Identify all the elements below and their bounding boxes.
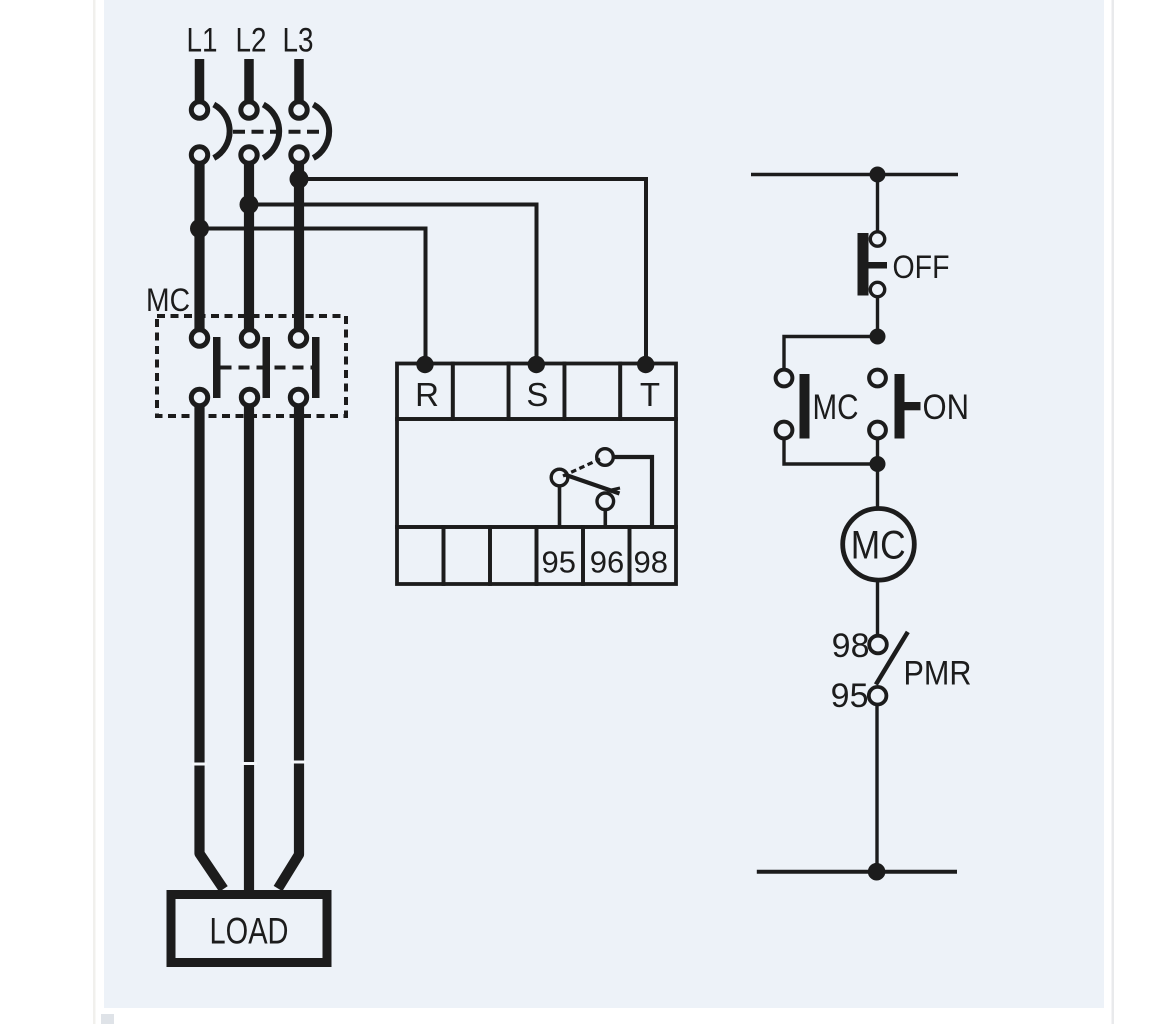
contactor mechanical link (dashed) xyxy=(221,366,313,370)
svg-text:LOAD: LOAD xyxy=(210,911,289,952)
PMR contact terminal 95 xyxy=(869,687,887,705)
contactor MC pole 2 xyxy=(241,330,270,406)
wire 95 to bottom rail xyxy=(875,705,878,872)
wire L1 supply stub xyxy=(195,59,205,102)
wire OFF to parallel junction xyxy=(876,298,879,337)
svg-text:98: 98 xyxy=(832,627,870,665)
wire to MC aux branch top xyxy=(784,337,878,371)
svg-text:R: R xyxy=(415,376,439,413)
overload relay bottom terminal row xyxy=(397,527,676,584)
relay contact NC 96 wire xyxy=(603,510,607,527)
PMR contact terminal 98 xyxy=(869,636,887,654)
terminal S node xyxy=(528,356,545,373)
wire junction to coil xyxy=(876,464,879,508)
load box xyxy=(171,895,327,963)
svg-text:MC: MC xyxy=(813,388,859,427)
wire L3 tap to terminal T xyxy=(299,179,646,362)
node bottom rail junction xyxy=(868,863,886,881)
auxiliary contact MC (NO) xyxy=(776,370,810,439)
breaker mechanical link (dashed) xyxy=(233,130,321,134)
node parallel top junction xyxy=(870,329,886,345)
wire L2 supply stub xyxy=(244,59,254,102)
svg-text:S: S xyxy=(526,376,548,413)
svg-text:T: T xyxy=(640,376,660,413)
svg-text:L3: L3 xyxy=(283,22,314,60)
wire ON to bottom junction xyxy=(876,439,879,464)
node L3 tap xyxy=(290,170,309,189)
relay changeover contact xyxy=(551,449,620,510)
wire contactor pole3 to load xyxy=(278,405,306,889)
pushbutton OFF (NC) xyxy=(858,232,888,297)
circuit breaker pole 3 xyxy=(291,102,329,163)
wire L1 breaker to contactor xyxy=(194,160,204,332)
wire L3 supply stub xyxy=(294,59,304,102)
wire L3 breaker to contactor xyxy=(294,160,304,332)
control bottom rail xyxy=(757,870,957,874)
coil MC xyxy=(843,509,915,581)
contactor MC pole 1 xyxy=(191,330,220,406)
svg-text:MC: MC xyxy=(851,524,906,568)
node L2 tap xyxy=(240,195,259,214)
svg-text:95: 95 xyxy=(542,545,576,580)
node top rail junction xyxy=(870,167,886,183)
wire MC aux branch bottom xyxy=(784,439,878,464)
control top rail xyxy=(751,173,958,177)
pushbutton ON (NO) xyxy=(869,370,920,439)
node L1 tap xyxy=(190,219,209,238)
svg-text:L2: L2 xyxy=(236,22,267,60)
wire rail to OFF button xyxy=(876,175,879,233)
relay contact NO 98 wire xyxy=(613,457,652,526)
circuit breaker pole 1 xyxy=(191,102,229,163)
terminal T node xyxy=(637,356,654,373)
wire L1 tap to terminal R xyxy=(200,229,426,363)
contactor MC pole 3 xyxy=(290,330,319,406)
svg-text:ON: ON xyxy=(923,388,970,427)
relay contact common 95 wire xyxy=(558,486,562,526)
svg-text:MC: MC xyxy=(146,282,190,318)
svg-text:OFF: OFF xyxy=(893,249,950,285)
PMR switch blade xyxy=(876,632,908,685)
contactor MC enclosure (dashed) xyxy=(157,316,346,416)
svg-text:96: 96 xyxy=(590,545,624,580)
overload relay top terminal row xyxy=(397,364,676,420)
svg-text:95: 95 xyxy=(831,677,869,715)
node parallel bottom junction xyxy=(870,456,886,472)
wire coil to PMR 98 xyxy=(876,582,879,636)
svg-text:98: 98 xyxy=(634,545,668,580)
wire L2 tap to terminal S xyxy=(249,205,537,363)
overload relay body xyxy=(397,419,676,527)
terminal R node xyxy=(416,356,433,373)
circuit breaker pole 2 xyxy=(241,102,279,163)
svg-text:L1: L1 xyxy=(187,22,218,60)
wire contactor pole2 to load xyxy=(242,405,257,892)
wire L2 breaker to contactor xyxy=(244,160,254,332)
svg-text:PMR: PMR xyxy=(904,655,972,693)
wire contactor pole1 to load xyxy=(192,405,224,889)
